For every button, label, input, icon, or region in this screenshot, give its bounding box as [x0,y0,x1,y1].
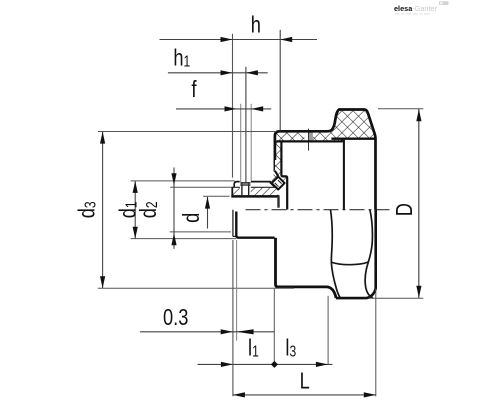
svg-text:d: d [179,213,205,223]
label l1 [248,335,259,361]
arrow 0.3 right [237,329,254,334]
extension line d2 top [170,186,231,188]
dimension line f [176,108,271,110]
arrow d3 bottom [100,276,105,288]
arrow D bottom [416,286,421,298]
label d1 [115,201,141,218]
lobe rim hatch filler at rise [327,131,332,138]
label l3 [285,335,296,361]
cap seat line left [232,186,240,188]
screw hole thread tick 3 [240,183,250,185]
extension line h1 right [245,67,247,183]
arrow f right [251,106,263,111]
arrow h left [221,37,233,42]
extension line d3 top [98,131,277,133]
arrow h1 right [246,70,258,75]
svg-text:h: h [251,12,261,38]
extension line D bottom [369,297,424,299]
extension line d3 bottom [98,287,294,289]
dimension line D [418,109,420,298]
svg-text:elesa-Ganter: elesa-Ganter [394,4,438,13]
label d3 [74,201,100,218]
extension line d1 top [131,180,235,182]
arrow D top [416,109,421,121]
arrow L right [364,392,376,397]
dimension line 0.3 [140,331,274,333]
dimension line h1 [168,72,268,74]
svg-text:f: f [191,77,196,102]
bushing band left edge [231,187,233,197]
arrow L left [233,392,245,397]
extension line bushing face down (L / l1 / 0.3) [232,240,234,396]
diamond (plastic around bushing end) [272,177,285,190]
screw hole thread tick 1 [240,182,250,184]
extension line d2 bottom [170,231,231,233]
bushing band hatch [232,187,277,196]
arrow 0.3 left [221,329,233,334]
label f [191,77,196,102]
flange band bottom edge [276,140,342,142]
arrow l1 left [221,362,233,367]
wall step + right edge [281,142,287,210]
dimension line l1/l3 [198,363,333,365]
label d2 [136,201,162,218]
dimension line d2 [173,168,175,249]
lobe inner-left edge [343,139,345,210]
centerline (axis) [246,209,390,211]
plastic outline: flange corner + top edge + lobe rise + top + chamfer + right edge [275,110,376,210]
lobe edge waist curve [332,262,369,265]
logo flag box inner mark [440,2,443,4]
arrow d3 top [100,132,105,144]
dimension line L [233,394,376,396]
label d [179,213,205,223]
arrow l3 right [316,362,328,367]
extension line knob rear face down (L) [375,289,377,397]
bushing band bottom edge (bore) [231,195,279,198]
dimension line d3 [102,132,104,288]
extension line bushing rear (h) [279,30,281,131]
arrow d1 bottom [133,227,138,239]
screw hole white gap in band [240,180,251,196]
arrow f left [225,106,237,111]
arrow d1 top [133,181,138,193]
cap outline right part [251,182,276,187]
label h1 [173,45,190,71]
plastic wall bar hatch [276,141,282,173]
junction node l1/l3 [271,361,278,368]
label h [251,12,261,38]
extension line lobe left down (l3) [327,296,329,365]
flange radial hole axis line [308,129,310,151]
svg-text:0.3: 0.3 [163,305,188,331]
label 0.3 [163,305,188,331]
extension line hub plastic face down (0.3 right) [236,240,238,341]
svg-text:L: L [300,369,310,395]
arrow h1 left [221,70,233,75]
diamond hatch stroke 1 [275,183,279,187]
cap outline left part [234,182,240,188]
arrow d up [205,197,210,209]
flange band hatch left part [276,132,305,141]
bushing end face bar [277,196,279,207]
flange band hatch right part [313,132,342,141]
diamond hatch stroke 2 [278,180,282,184]
re-hatch band under cap area [232,188,277,196]
screw hole thread minor line left [241,183,243,195]
flange radial hole gray half [309,132,313,141]
hatch filler around diamond [271,160,287,190]
dimension line d1 [134,181,136,238]
bushing silhouette bottom sliver [233,235,236,237]
logo flag box [439,1,449,5]
arrow h right [280,37,292,42]
bushing cap [234,182,275,188]
extension line flange face down (l1/l3) [273,289,275,365]
lobe rim bottom edge [331,138,375,140]
lobe rim section hatch [332,110,376,139]
extension line hole crest left (f) [240,104,242,183]
extension line bushing front face [232,34,234,178]
extension line hole crest right (f) [250,104,252,181]
hub nose face + bottom [236,212,274,238]
dimension line h [160,39,318,41]
arrow d2 bottom (outside) [171,233,176,245]
lobe inner curve left [331,210,341,298]
wall left lower edge diagonal into diamond [275,171,278,176]
flange radial hole white half [304,132,308,141]
logo copyright micro text line [395,13,430,15]
lobe bottom [336,210,376,298]
label L [300,369,310,395]
flange face + bottom [276,238,337,298]
svg-text:D: D [392,203,418,216]
extension line d bore [203,195,229,197]
label D [392,203,418,216]
bushing front face (protruding 0.3) [232,210,234,237]
screw hole thread minor line right [248,183,250,195]
extension line D top [378,108,423,110]
screw hole white slot [240,180,251,196]
cap seat line right [251,186,278,188]
step between band and rim edges [341,138,343,143]
dimension line d [207,197,209,229]
bushing cap chamfer under diamond [270,182,275,187]
arrow d2 top (outside) [171,173,176,185]
lobe inner curve right [365,210,373,298]
extension line d1 bottom [131,238,237,240]
screw hole thread tick 2 [240,184,250,186]
